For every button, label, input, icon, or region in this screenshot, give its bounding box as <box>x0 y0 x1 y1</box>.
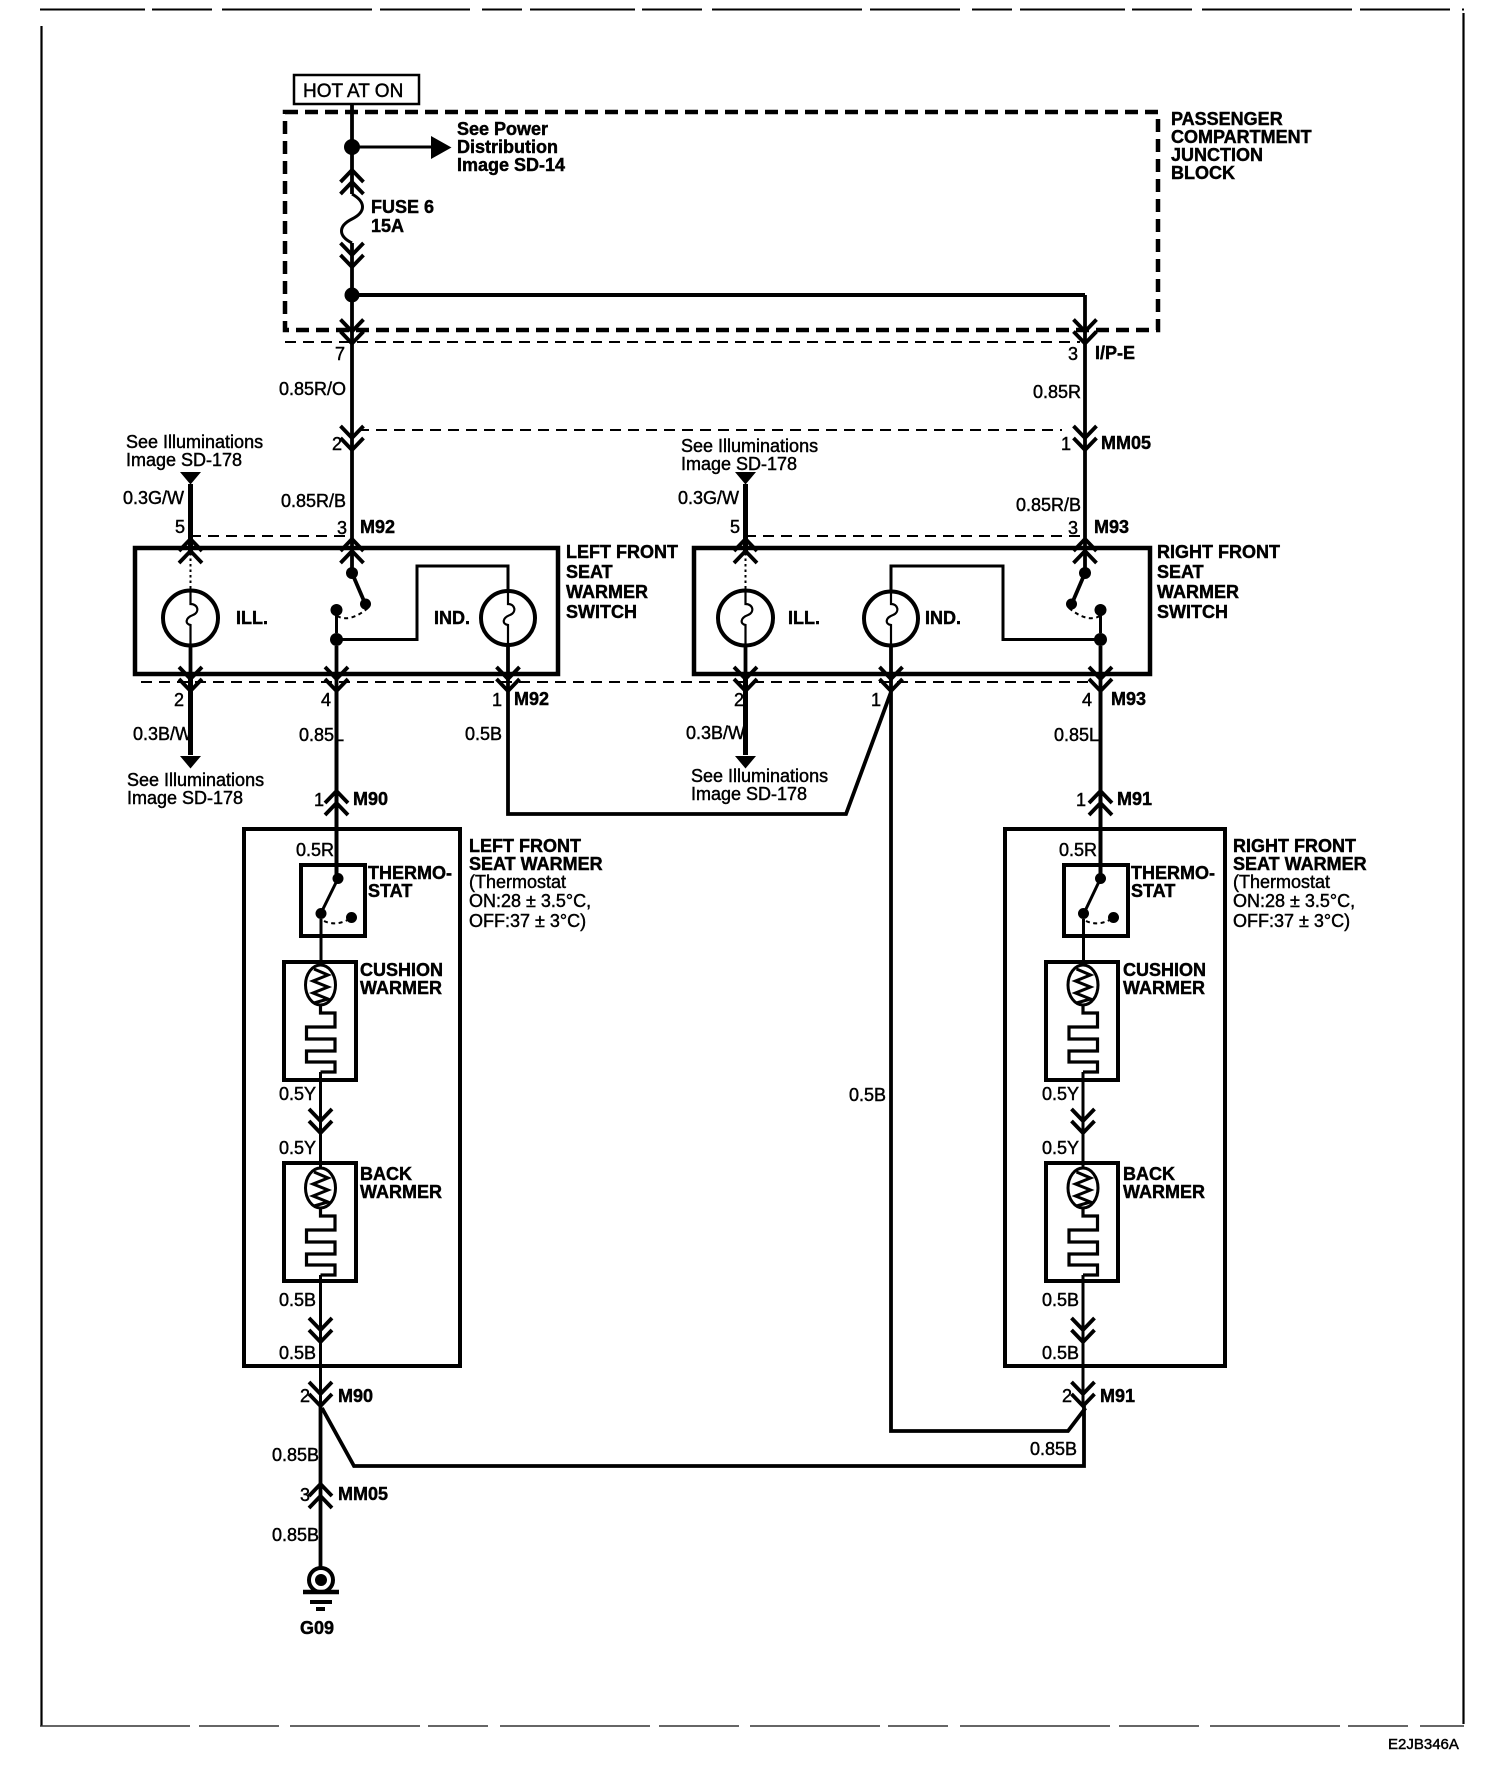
svg-text:0.5Y: 0.5Y <box>1042 1084 1079 1104</box>
svg-text:WARMER: WARMER <box>1123 1182 1205 1202</box>
svg-text:WARMER: WARMER <box>360 1182 442 1202</box>
svg-text:STAT: STAT <box>1131 881 1175 901</box>
power tag HOT AT ON <box>294 75 419 104</box>
svg-text:Image SD-178: Image SD-178 <box>691 784 807 804</box>
switch contact (right) <box>1066 562 1107 646</box>
illumination feed arrow (right) <box>678 436 818 551</box>
wire main feed left branch (fuse to switch M92 pin 3) <box>350 243 354 568</box>
svg-text:PASSENGER: PASSENGER <box>1171 109 1283 129</box>
fuse F6 15A <box>341 170 435 267</box>
svg-text:2: 2 <box>1062 1386 1072 1406</box>
node (junction dot) <box>344 139 360 155</box>
wire 0.5R (left) <box>296 840 334 860</box>
svg-text:4: 4 <box>321 690 331 710</box>
wire label 0.85R/O <box>279 379 346 399</box>
svg-text:0.85B: 0.85B <box>272 1445 319 1465</box>
svg-text:Image SD-178: Image SD-178 <box>126 450 242 470</box>
left switch connector M92 top: pin 3 <box>337 517 395 563</box>
svg-text:OFF:37 ± 3°C): OFF:37 ± 3°C) <box>1233 911 1350 931</box>
svg-text:0.5B: 0.5B <box>279 1290 316 1310</box>
svg-text:SEAT: SEAT <box>566 562 613 582</box>
svg-text:4: 4 <box>1082 690 1092 710</box>
connector M91 pin 1 <box>1076 789 1152 815</box>
svg-text:1: 1 <box>871 690 881 710</box>
svg-text:MM05: MM05 <box>338 1484 388 1504</box>
right switch connector M93 bottom: pin 4 <box>1082 667 1146 710</box>
svg-text:0.85L: 0.85L <box>1054 725 1099 745</box>
svg-text:SEAT WARMER: SEAT WARMER <box>469 854 603 874</box>
svg-text:IND.: IND. <box>925 608 961 628</box>
svg-text:See Illuminations: See Illuminations <box>126 432 263 452</box>
svg-text:G09: G09 <box>300 1618 334 1638</box>
wire label 0.85R <box>1033 382 1081 402</box>
see power distribution reference arrow <box>359 119 565 175</box>
back warmer element (right) <box>1046 1163 1205 1281</box>
svg-text:M92: M92 <box>514 689 549 709</box>
connector M90 pin 2 <box>300 1382 373 1406</box>
svg-text:15A: 15A <box>371 216 404 236</box>
node (bus junction dot) <box>345 288 360 303</box>
left switch connector M92 bottom: pin 4 <box>321 667 348 710</box>
wire 0.3B/W to illumination return (right) <box>686 676 828 804</box>
lamp ILL (left switch) <box>163 553 268 676</box>
svg-text:LEFT FRONT: LEFT FRONT <box>469 836 581 856</box>
wire 0.5R (right) <box>1059 840 1097 860</box>
svg-text:BACK: BACK <box>360 1164 412 1184</box>
svg-text:1: 1 <box>1061 434 1071 454</box>
svg-text:See Illuminations: See Illuminations <box>127 770 264 790</box>
left switch connector M92 bottom: pin 2 <box>174 667 202 710</box>
lamp IND (right switch) <box>864 592 961 646</box>
svg-text:0.85L: 0.85L <box>299 725 344 745</box>
svg-text:E2JB346A: E2JB346A <box>1388 1736 1459 1753</box>
connector boundary dashed line <box>285 341 1080 343</box>
svg-text:Image SD-14: Image SD-14 <box>457 155 565 175</box>
svg-text:JUNCTION: JUNCTION <box>1171 145 1263 165</box>
lamp ILL (right switch) <box>718 553 820 676</box>
junction block label <box>1171 109 1312 183</box>
svg-text:2: 2 <box>300 1386 310 1406</box>
right switch connector M93 top: pin 5 <box>734 539 757 563</box>
wire switch to IND lamp (right) <box>891 566 1101 640</box>
connector M90 pin 1 <box>314 789 388 815</box>
connector I/P-E pin 3 <box>1068 320 1135 365</box>
svg-text:ON:28 ± 3.5°C,: ON:28 ± 3.5°C, <box>469 891 591 911</box>
wire 0.3B/W to illumination return (left) <box>127 676 264 808</box>
svg-text:CUSHION: CUSHION <box>1123 960 1206 980</box>
svg-text:0.5B: 0.5B <box>1042 1290 1079 1310</box>
connector boundary dashed (bottom row, spans both switches) <box>141 681 1093 683</box>
wire 0.85L (left) <box>299 692 344 874</box>
svg-text:0.5B: 0.5B <box>1042 1343 1079 1363</box>
svg-text:CUSHION: CUSHION <box>360 960 443 980</box>
wire 0.5B long run (right pin1 to M91 join) <box>849 644 1086 1431</box>
svg-text:OFF:37 ± 3°C): OFF:37 ± 3°C) <box>469 911 586 931</box>
svg-text:LEFT FRONT: LEFT FRONT <box>566 542 678 562</box>
svg-text:5: 5 <box>175 517 185 537</box>
svg-text:5: 5 <box>730 517 740 537</box>
svg-text:0.5B: 0.5B <box>465 724 502 744</box>
svg-text:STAT: STAT <box>368 881 412 901</box>
cushion warmer element (left) <box>284 960 443 1080</box>
svg-text:1: 1 <box>492 690 502 710</box>
svg-text:IND.: IND. <box>434 608 470 628</box>
svg-text:2: 2 <box>332 434 342 454</box>
svg-text:2: 2 <box>734 690 744 710</box>
svg-text:M90: M90 <box>338 1386 373 1406</box>
svg-text:Image SD-178: Image SD-178 <box>681 454 797 474</box>
svg-text:RIGHT FRONT: RIGHT FRONT <box>1157 542 1280 562</box>
svg-text:0.85R/B: 0.85R/B <box>1016 495 1081 515</box>
svg-text:SEAT: SEAT <box>1157 562 1204 582</box>
svg-text:I/P-E: I/P-E <box>1095 343 1135 363</box>
wire 0.5B from left switch pin 1 to right pin 1 <box>465 644 891 814</box>
svg-text:See Illuminations: See Illuminations <box>681 436 818 456</box>
svg-text:M92: M92 <box>360 517 395 537</box>
bus wire to right branch <box>359 293 1085 297</box>
svg-text:0.5Y: 0.5Y <box>1042 1138 1079 1158</box>
svg-text:BLOCK: BLOCK <box>1171 163 1235 183</box>
right unit label <box>1233 836 1367 931</box>
right switch label <box>1157 542 1280 622</box>
right switch connector M93 bottom: pin 1 <box>871 667 903 710</box>
wire pin4 branch (left) <box>335 646 339 692</box>
svg-text:SWITCH: SWITCH <box>566 602 637 622</box>
back warmer element (left) <box>284 1163 442 1281</box>
svg-text:0.85R/O: 0.85R/O <box>279 379 346 399</box>
wire pin4 branch (right) <box>1099 646 1103 692</box>
svg-text:WARMER: WARMER <box>1157 582 1239 602</box>
left switch label <box>566 542 678 622</box>
right switch connector M93 bottom: pin 2 <box>734 667 757 710</box>
connector M91 pin 2 <box>1062 1382 1135 1406</box>
svg-text:(Thermostat: (Thermostat <box>1233 872 1330 892</box>
svg-text:ILL.: ILL. <box>236 608 268 628</box>
svg-text:M93: M93 <box>1111 689 1146 709</box>
svg-text:See Power: See Power <box>457 119 548 139</box>
svg-text:0.5B: 0.5B <box>279 1343 316 1363</box>
svg-text:Distribution: Distribution <box>457 137 558 157</box>
wire thermostat to cushion warmer (left) <box>320 919 323 966</box>
left switch connector M92 bottom: pin 1 <box>492 667 549 710</box>
svg-text:1: 1 <box>1076 790 1086 810</box>
switch contact (left) <box>330 562 371 646</box>
svg-text:(Thermostat: (Thermostat <box>469 872 566 892</box>
wire label 0.85R/B (left) <box>281 491 346 511</box>
wire right branch down (to switch M93 pin 3) <box>1083 295 1087 568</box>
in-line connector MM05 pin 1 (right) <box>1061 426 1151 454</box>
svg-text:2: 2 <box>174 690 184 710</box>
svg-text:0.85B: 0.85B <box>1030 1439 1077 1459</box>
connector I/P-E pin 7 <box>335 320 364 365</box>
svg-text:0.5Y: 0.5Y <box>279 1138 316 1158</box>
wire from HOT AT ON to fuse <box>350 104 354 194</box>
wire 0.5B with connector (left) <box>279 1275 332 1406</box>
svg-text:WARMER: WARMER <box>1123 978 1205 998</box>
svg-text:MM05: MM05 <box>1101 433 1151 453</box>
svg-text:FUSE 6: FUSE 6 <box>371 197 434 217</box>
LEFT FRONT SEAT WARMER unit box <box>244 829 460 1366</box>
connector boundary dashed (right switch top) <box>745 535 1085 537</box>
svg-text:RIGHT FRONT: RIGHT FRONT <box>1233 836 1356 856</box>
svg-text:THERMO-: THERMO- <box>1131 863 1215 883</box>
svg-text:ON:28 ± 3.5°C,: ON:28 ± 3.5°C, <box>1233 891 1355 911</box>
lamp IND (left switch) <box>434 591 535 645</box>
svg-text:THERMO-: THERMO- <box>368 863 452 883</box>
illumination feed arrow (left) <box>123 432 263 551</box>
right switch connector M93 top: pin 3 <box>1068 517 1129 563</box>
svg-text:WARMER: WARMER <box>566 582 648 602</box>
svg-text:WARMER: WARMER <box>360 978 442 998</box>
wire thermostat to cushion warmer (right) <box>1082 919 1085 966</box>
svg-text:HOT AT ON: HOT AT ON <box>303 81 403 102</box>
svg-text:SWITCH: SWITCH <box>1157 602 1228 622</box>
wire 0.85B (left, M90 to MM05) <box>272 1406 321 1568</box>
wire 0.85L (right) <box>1054 692 1101 874</box>
svg-text:1: 1 <box>314 790 324 810</box>
left switch connector M92 top: pin 5 <box>179 539 202 563</box>
svg-text:0.3G/W: 0.3G/W <box>678 488 739 508</box>
svg-text:BACK: BACK <box>1123 1164 1175 1184</box>
right front seat warmer switch box M93 <box>694 548 1150 674</box>
svg-text:SEAT WARMER: SEAT WARMER <box>1233 854 1367 874</box>
svg-text:7: 7 <box>335 344 345 364</box>
svg-text:M91: M91 <box>1117 789 1152 809</box>
cushion warmer element (right) <box>1046 960 1206 1080</box>
svg-text:See Illuminations: See Illuminations <box>691 766 828 786</box>
svg-text:0.85R/B: 0.85R/B <box>281 491 346 511</box>
wire label 0.85R/B (right) <box>1016 495 1081 515</box>
svg-text:ILL.: ILL. <box>788 608 820 628</box>
svg-text:0.5R: 0.5R <box>296 840 334 860</box>
wire 0.5Y with connector (right) <box>1042 1072 1095 1167</box>
connector boundary dashed (left switch top) <box>190 535 352 537</box>
svg-text:0.85R: 0.85R <box>1033 382 1081 402</box>
svg-text:M93: M93 <box>1094 517 1129 537</box>
svg-text:0.5R: 0.5R <box>1059 840 1097 860</box>
left front seat warmer switch box M92 <box>135 548 558 674</box>
connector MM05 pin 3 <box>300 1484 388 1508</box>
ground G09 <box>300 1568 339 1638</box>
svg-text:Image SD-178: Image SD-178 <box>127 788 243 808</box>
passenger compartment junction block (dashed box) <box>285 112 1158 330</box>
svg-text:0.3B/W: 0.3B/W <box>686 723 745 743</box>
svg-text:3: 3 <box>300 1485 310 1505</box>
svg-text:M90: M90 <box>353 789 388 809</box>
svg-text:0.85B: 0.85B <box>272 1525 319 1545</box>
svg-text:COMPARTMENT: COMPARTMENT <box>1171 127 1312 147</box>
thermostat (right) <box>1064 863 1215 936</box>
svg-text:0.5B: 0.5B <box>849 1085 886 1105</box>
svg-text:0.3G/W: 0.3G/W <box>123 488 184 508</box>
wire switch to IND lamp (left) <box>337 566 509 640</box>
wire 0.85B (right unit to ground bus) <box>322 1406 1084 1466</box>
wire 0.85B to ground <box>272 1525 319 1545</box>
svg-text:0.3B/W: 0.3B/W <box>133 724 192 744</box>
in-line connector pin 2 (left) <box>332 426 364 454</box>
left unit label <box>469 836 603 931</box>
thermostat (left) <box>301 863 452 936</box>
wire 0.5B with connector (right) <box>1042 1275 1095 1406</box>
connector boundary dashed line <box>358 429 1062 431</box>
wire 0.5Y with connector (left) <box>279 1072 332 1167</box>
svg-text:3: 3 <box>1068 344 1078 364</box>
svg-text:M91: M91 <box>1100 1386 1135 1406</box>
RIGHT FRONT SEAT WARMER unit box <box>1005 829 1225 1366</box>
svg-text:0.5Y: 0.5Y <box>279 1084 316 1104</box>
